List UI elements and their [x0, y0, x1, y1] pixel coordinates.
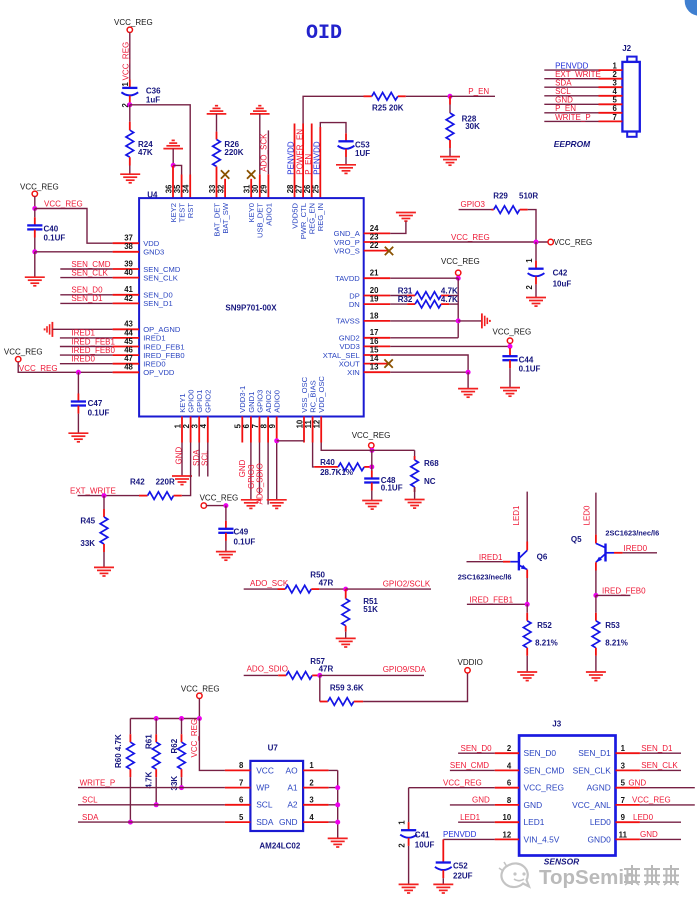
svg-text:0.1UF: 0.1UF	[44, 234, 66, 243]
R24 top lead	[129, 122, 131, 131]
junction bus/VCC	[197, 716, 202, 721]
svg-text:4.7K: 4.7K	[145, 771, 154, 788]
wire LED1 J3	[458, 821, 495, 823]
svg-text:ADO_SCK: ADO_SCK	[250, 579, 289, 588]
svg-text:LED0: LED0	[590, 817, 611, 827]
wire OP_AGND to ground	[52, 328, 112, 330]
wire TAVDD row	[390, 277, 458, 279]
wire junction down to C48	[371, 450, 373, 467]
junction IRED_FEB0/R53	[593, 593, 598, 598]
svg-text:33K: 33K	[80, 539, 95, 548]
U4 pin31 line	[250, 179, 252, 198]
wire IRED_FEB1	[467, 603, 527, 605]
svg-text:2: 2	[525, 285, 534, 290]
R59 left lead	[320, 701, 328, 703]
svg-text:47R: 47R	[319, 665, 334, 674]
svg-text:SCL: SCL	[82, 796, 98, 805]
wire junction down to R24	[129, 105, 131, 122]
J3 pin names left	[524, 748, 565, 844]
svg-text:GND0: GND0	[588, 834, 612, 844]
junction C47 top	[76, 370, 81, 375]
wire EXT_WRITE to R42	[78, 495, 139, 497]
ground (XIN/XTAL_SEL)	[458, 389, 478, 398]
wire junction to C47	[77, 372, 79, 393]
capacitor C36	[121, 88, 138, 96]
ground (C42)	[526, 298, 546, 307]
U4 pin28 line VDD5D	[294, 124, 296, 199]
svg-text:C47: C47	[88, 399, 103, 408]
resistor R50	[285, 585, 311, 593]
wire C52 to ground	[442, 878, 444, 884]
svg-text:VCC_ANL: VCC_ANL	[572, 800, 611, 810]
R68 top lead	[414, 456, 416, 460]
junction bus/R62	[179, 716, 184, 721]
IC U7 body (AM24LC02)	[250, 761, 303, 831]
svg-text:XIN: XIN	[347, 368, 360, 377]
svg-text:51K: 51K	[363, 605, 378, 614]
svg-text:R52: R52	[537, 621, 552, 630]
C36 pin1 lead	[129, 80, 131, 88]
wire WRITE_P to U7 pin7	[78, 787, 225, 789]
wire VCC_REG J3	[409, 787, 495, 789]
wire R31 to column	[449, 295, 458, 297]
svg-text:22: 22	[370, 241, 379, 250]
junction EXT_WRITE/R45	[102, 493, 107, 498]
junction C40 bottom	[32, 249, 37, 254]
resistor R32	[415, 300, 441, 308]
wire pin25 to C53	[320, 123, 346, 134]
ground (ADIO0/VSS_OSC)	[267, 500, 287, 509]
wire SEN_D1 J3	[640, 752, 681, 754]
capacitor C44	[502, 356, 517, 360]
no-connect X (pin31 KEY0)	[247, 170, 255, 178]
svg-text:GND: GND	[238, 459, 247, 477]
power port VCC_REG circle (C47)	[16, 357, 21, 362]
svg-text:LED1: LED1	[524, 817, 545, 827]
no-connect X (pin22 VRO_S)	[385, 247, 393, 255]
wire resistor bus	[130, 718, 199, 720]
ground (C40)	[25, 277, 45, 286]
J2 pin numbers 1-7	[612, 62, 617, 122]
svg-text:1: 1	[525, 258, 534, 263]
svg-text:29: 29	[260, 184, 269, 193]
svg-text:R53: R53	[605, 621, 620, 630]
svg-text:8.21%: 8.21%	[605, 639, 628, 648]
wire C47 to ground	[77, 414, 79, 434]
svg-text:SDA: SDA	[82, 813, 99, 822]
ground (R24)	[120, 174, 140, 183]
signal ground (OP_AGND, left-pointing)	[45, 322, 53, 337]
wire junction to ground	[34, 252, 36, 277]
svg-text:5: 5	[621, 779, 626, 788]
Q5 emitter pin	[595, 562, 597, 570]
wire to U4 pin38 GND3	[35, 251, 113, 253]
wire C49 to ground	[225, 541, 227, 552]
J2 pin stubs 1-7	[599, 70, 623, 121]
wire VCC_REG J3 right	[640, 804, 695, 806]
svg-text:SN9P701-00X: SN9P701-00X	[225, 304, 277, 313]
wire junction to C48 lead	[371, 467, 373, 471]
wire P_EN net	[450, 95, 495, 97]
op-amp/SoC U4 body (SN9P701-00X)	[139, 198, 364, 416]
svg-text:GPIO2: GPIO2	[204, 390, 213, 413]
svg-text:C53: C53	[355, 140, 370, 149]
svg-text:R60 4.7K: R60 4.7K	[114, 734, 123, 768]
wire junction to R28	[449, 105, 451, 114]
wire LED1 to Q6 collector	[526, 492, 528, 542]
svg-text:18: 18	[370, 311, 379, 320]
svg-text:4: 4	[309, 813, 314, 822]
wire ground to U4 pin30	[259, 114, 261, 174]
J3 left pin stubs	[495, 753, 519, 839]
svg-text:GPIO9/SDA: GPIO9/SDA	[383, 665, 427, 674]
R42 right lead	[174, 495, 182, 497]
R68 bottom lead	[414, 487, 416, 492]
svg-text:42: 42	[124, 294, 133, 303]
ground (C47)	[68, 433, 88, 442]
power port VCC_REG circle (top left)	[127, 27, 132, 32]
wire C53 to ground	[345, 157, 347, 165]
svg-text:ADO_SDIO: ADO_SDIO	[256, 463, 265, 504]
connector J3 body	[519, 736, 615, 856]
svg-text:22UF: 22UF	[453, 872, 473, 881]
U4 bottom pin stubs (pins 1-12)	[182, 417, 321, 443]
wire ADO_SCK	[244, 588, 278, 590]
wire to R68	[414, 450, 416, 460]
ground (R28)	[440, 157, 460, 166]
wire IRED1	[60, 337, 113, 339]
resistor R28	[446, 113, 454, 140]
junction R40/C48	[369, 464, 374, 469]
wire R25 to P_EN junction	[406, 95, 450, 97]
svg-text:ADO_SCK: ADO_SCK	[260, 133, 269, 172]
svg-text:VCC_REG: VCC_REG	[443, 779, 482, 788]
junction IRED_FEB1/R52	[525, 602, 530, 607]
svg-text:C44: C44	[519, 356, 534, 365]
wire port down	[509, 343, 511, 348]
inverted ground (KEY2/TEST)	[163, 140, 183, 148]
svg-text:220R: 220R	[156, 477, 175, 486]
svg-text:0.1UF: 0.1UF	[519, 365, 541, 374]
svg-text:1: 1	[121, 82, 130, 87]
junction R60/SDA	[128, 820, 133, 825]
wire vertical TAVDD/TAVSS/GND2 column	[457, 278, 459, 338]
wire bus to R60	[129, 719, 131, 735]
svg-text:GND3: GND3	[143, 248, 164, 257]
ground (C41)	[399, 884, 419, 893]
wire GND J3 pin11	[640, 838, 681, 840]
U4 pin26 line REG_EN	[311, 124, 313, 199]
wire junction to C40	[34, 209, 36, 218]
junction P_EN	[448, 94, 453, 99]
C53 bottom lead	[345, 149, 347, 157]
wire ADO_SDIO (pin8)	[267, 443, 269, 505]
C48 bottom lead	[371, 483, 373, 491]
Q6 collector pin	[526, 542, 528, 551]
U4 left pin stubs (pins 37-48)	[113, 243, 140, 372]
wire ADO_SDIO	[244, 674, 279, 676]
R52 top lead	[526, 613, 528, 621]
R42 left lead	[139, 495, 148, 497]
svg-text:J3: J3	[552, 719, 561, 728]
junction KEY2/TEST	[171, 163, 176, 168]
wire junction down to R45	[103, 496, 105, 509]
svg-text:C42: C42	[553, 269, 568, 278]
svg-text:AM24LC02: AM24LC02	[259, 842, 300, 851]
svg-text:SCL: SCL	[256, 800, 273, 810]
svg-text:IRED0: IRED0	[71, 355, 95, 364]
svg-text:3: 3	[621, 761, 626, 770]
svg-text:IRED_FEB0: IRED_FEB0	[602, 586, 646, 595]
svg-text:EEPROM: EEPROM	[554, 139, 591, 149]
svg-text:GPIO2/SCLK: GPIO2/SCLK	[383, 579, 431, 588]
svg-text:DN: DN	[349, 300, 360, 309]
wire GPIO3 (pin7)	[259, 443, 261, 495]
svg-text:WP: WP	[256, 783, 270, 793]
ground (GND1)	[241, 500, 261, 509]
wire R59 to VDDIO	[363, 673, 467, 702]
resistor R45	[100, 517, 108, 544]
ground (R52)	[517, 672, 537, 681]
svg-text:R31: R31	[398, 286, 413, 295]
svg-text:VCC_REG: VCC_REG	[114, 18, 153, 27]
R31 right lead	[441, 295, 449, 297]
wire GND J3 right	[640, 787, 695, 789]
svg-text:VCC: VCC	[256, 765, 274, 775]
svg-text:2: 2	[309, 778, 314, 787]
svg-text:A1: A1	[287, 783, 298, 793]
svg-text:3: 3	[309, 796, 314, 805]
svg-text:GND: GND	[640, 830, 658, 839]
svg-text:8.21%: 8.21%	[535, 639, 558, 648]
U4 pin34 line	[189, 175, 191, 199]
svg-text:TAVDD: TAVDD	[335, 274, 360, 283]
svg-text:48: 48	[124, 363, 133, 372]
capacitor C42	[528, 269, 545, 277]
R32 right lead	[441, 303, 449, 305]
svg-text:LED1: LED1	[460, 813, 481, 822]
power port VCC_REG circle (C49)	[201, 503, 206, 508]
svg-text:9: 9	[268, 423, 277, 428]
wire junction down	[225, 506, 227, 521]
svg-text:C52: C52	[453, 862, 468, 871]
capacitor C47	[71, 402, 86, 406]
junction R62/WRITE_P	[179, 785, 184, 790]
wire VCC_REG to U7 pin8	[199, 719, 225, 771]
wire R28 to ground	[449, 148, 451, 157]
svg-text:SEN_CLK: SEN_CLK	[573, 765, 612, 775]
svg-text:VCC_REG: VCC_REG	[632, 796, 671, 805]
svg-text:ADIO0: ADIO0	[273, 390, 282, 413]
junction VCC_REG/VDD_OSC	[370, 448, 375, 453]
resistor R42	[148, 492, 174, 500]
wire GPIO9/SDA	[320, 674, 424, 676]
transistor Q5 (NPN, mirrored)	[596, 543, 614, 562]
svg-text:0.1UF: 0.1UF	[381, 483, 403, 492]
U4 top pin names	[169, 202, 325, 239]
capacitor C49	[218, 529, 233, 533]
svg-text:LED0: LED0	[633, 813, 654, 822]
wire U7 right pins to ground column	[329, 770, 338, 838]
svg-text:VCC_REG: VCC_REG	[200, 494, 239, 503]
svg-text:VCC_REG: VCC_REG	[190, 719, 199, 758]
wire ground to junction (pin36/35)	[172, 149, 174, 166]
svg-text:R25 20K: R25 20K	[372, 104, 404, 113]
svg-text:2SC1623/nec/l6: 2SC1623/nec/l6	[605, 528, 659, 537]
wire GPIO2	[207, 443, 209, 477]
U4 pin32 line	[224, 179, 226, 198]
wire port to junction	[370, 448, 372, 450]
svg-text:A2: A2	[287, 800, 298, 810]
U4 pin29 line	[267, 174, 269, 198]
wire SEN_CMD J3	[450, 769, 495, 771]
svg-text:OID: OID	[306, 22, 342, 45]
wire TAVSS row	[390, 320, 458, 322]
C48 top lead	[371, 471, 373, 479]
svg-text:30K: 30K	[465, 122, 480, 131]
svg-text:34: 34	[182, 184, 191, 193]
Q5 collector pin	[595, 535, 597, 544]
svg-text:13: 13	[370, 363, 379, 372]
R62 top lead	[181, 734, 183, 742]
wire VSS_OSC to ADIO0	[277, 440, 304, 442]
C49 bottom lead	[225, 533, 227, 541]
svg-text:4: 4	[507, 761, 512, 770]
svg-text:SEN_D0: SEN_D0	[524, 748, 557, 758]
wire XIN row	[390, 371, 468, 373]
svg-text:WRITE_P: WRITE_P	[80, 778, 116, 787]
svg-text:U4: U4	[147, 191, 158, 200]
svg-text:R59 3.6K: R59 3.6K	[330, 684, 364, 693]
R40 left lead	[314, 466, 338, 468]
U4 top pin numbers	[164, 184, 320, 193]
svg-text:6: 6	[239, 796, 244, 805]
inverted ground (BAT_DET)	[207, 106, 227, 114]
R31 left lead	[407, 295, 415, 297]
wire VDD3 row	[390, 345, 510, 347]
resistor R31	[415, 292, 441, 300]
wire port to C49	[206, 505, 226, 507]
svg-text:GND: GND	[524, 800, 543, 810]
svg-text:R32: R32	[398, 295, 413, 304]
svg-text:GPIO3: GPIO3	[461, 200, 486, 209]
R28 bottom lead	[449, 140, 451, 148]
signal ground (TAVSS, right-pointing)	[482, 313, 490, 328]
R29 right lead	[520, 209, 528, 211]
no-connect X (pin14 XOUT)	[384, 359, 392, 367]
svg-text:SEN_CLK: SEN_CLK	[641, 761, 678, 770]
capacitor C41	[400, 830, 417, 838]
svg-text:6: 6	[507, 779, 512, 788]
wire R60 to SDA row	[129, 777, 131, 822]
svg-text:TopSemic: TopSemic	[539, 866, 635, 889]
svg-text:SEN_D1: SEN_D1	[578, 748, 611, 758]
wire KEY1 to ground	[181, 443, 183, 476]
svg-text:R62: R62	[170, 738, 179, 753]
Q5 base lead	[614, 552, 623, 554]
ground (C52)	[433, 884, 453, 893]
watermark logo (speech bubble)	[499, 862, 529, 887]
J3 right pin stubs	[616, 753, 640, 839]
svg-text:2SC1623/nec/l6: 2SC1623/nec/l6	[458, 572, 512, 581]
wire port to junction	[457, 276, 459, 279]
wire GPIO1/SCL	[198, 443, 200, 477]
svg-text:BAT_SW: BAT_SW	[221, 202, 230, 233]
R26 top lead	[216, 132, 218, 140]
wire Q6 emitter down	[526, 578, 528, 604]
junction VDD3/C44	[508, 344, 513, 349]
U7 pin names	[256, 765, 274, 827]
C36 pin2 lead	[129, 96, 131, 104]
resistor R25	[372, 93, 398, 101]
junction C40 top	[32, 206, 37, 211]
wire junction to R52	[526, 604, 528, 613]
svg-text:LED1: LED1	[512, 505, 521, 526]
R29 left lead	[492, 209, 494, 211]
connector J2 body	[622, 62, 639, 132]
svg-text:C40: C40	[44, 225, 59, 234]
svg-text:WRITE_P: WRITE_P	[555, 113, 591, 122]
R53 bottom lead	[595, 648, 597, 656]
resistor R26	[213, 140, 221, 167]
wire ground to R26	[216, 114, 218, 132]
U4 pin30 line	[259, 174, 261, 198]
inverted ground (USB_DET)	[250, 106, 270, 114]
R45 bottom lead	[103, 544, 105, 552]
wire junction down to R59	[319, 675, 321, 701]
wire GND2 row	[390, 337, 458, 339]
svg-text:SEN_CLK: SEN_CLK	[143, 273, 178, 282]
wire R51 to ground	[345, 632, 347, 639]
U4 pin27 line PWR_CTL	[302, 124, 304, 199]
svg-text:32: 32	[216, 184, 225, 193]
R25 left lead	[364, 95, 372, 97]
svg-text:7: 7	[239, 778, 243, 787]
wire SEN_D0 J3	[458, 752, 495, 754]
wire C42 to ground	[535, 284, 537, 297]
U4 right pin numbers	[370, 224, 379, 372]
wire GPIO2/SCLK	[346, 588, 431, 590]
svg-text:VRO_S: VRO_S	[334, 246, 360, 255]
svg-text:2: 2	[398, 843, 407, 848]
C44 bottom lead	[509, 360, 511, 368]
junction VCC_REG/C42	[534, 240, 539, 245]
resistor R61	[152, 742, 160, 769]
U4 right pin stubs (pins 24-13)	[364, 233, 391, 372]
resistor R57	[286, 672, 312, 680]
wires to J2 (PENVDD,EXT_WRITE,SDA,SCL,GND,P_EN,WRITE_P)	[544, 70, 598, 121]
transistor Q6 (NPN)	[510, 550, 527, 570]
svg-text:NC: NC	[424, 477, 436, 486]
wire SEN_CLK J3	[640, 769, 681, 771]
resistor R51	[342, 599, 350, 626]
svg-text:RST: RST	[186, 203, 195, 219]
C40 top lead	[34, 217, 36, 225]
power port VCC_REG circle (C44)	[507, 338, 512, 343]
svg-text:P_EN: P_EN	[468, 87, 489, 96]
wire IRED_FEB0	[596, 594, 631, 596]
wire SEN_CLK	[60, 277, 112, 279]
svg-text:4: 4	[199, 423, 208, 428]
svg-text:1UF: 1UF	[355, 149, 370, 158]
svg-text:LED0: LED0	[583, 505, 592, 526]
svg-text:SEN_D1: SEN_D1	[143, 299, 173, 308]
power port VCC_REG circle (U7)	[197, 693, 202, 698]
svg-text:28.7K1%: 28.7K1%	[320, 468, 353, 477]
svg-text:8: 8	[507, 796, 512, 805]
ground (KEY1)	[172, 476, 192, 485]
U7 left pin stubs 8-5	[225, 770, 251, 822]
